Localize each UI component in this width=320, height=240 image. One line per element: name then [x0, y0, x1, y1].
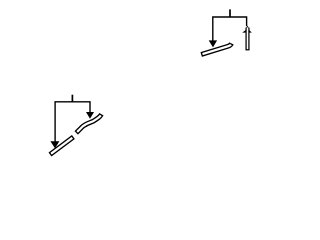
- wire: S1 bracket (left drop, horizontal, right drop): [213, 17, 247, 41]
- arrowhead: S1 solid down arrow onto blade: [209, 40, 217, 47]
- symbol S2 (bottom-left double-arrow contact): [55, 95, 90, 142]
- contact blade: S2 upper wavy bar with upturned end: [76, 114, 101, 133]
- contact blade: S1 slanted bar with curled tip: [201, 43, 231, 54]
- contact blade: S2 lower straight bar: [50, 137, 73, 155]
- wire: S1 top terminal stub: [229, 9, 231, 17]
- wire: S2 bracket (left drop, horizontal, right drop): [55, 102, 90, 142]
- wire: S2 top terminal stub: [71, 95, 73, 102]
- hollow return arrow: S1 up arrow with open shaft: [245, 26, 249, 29]
- arrowhead: S2 solid down arrow (left, long): [50, 141, 59, 148]
- arrowhead: S2 solid down arrow (right, short): [86, 112, 94, 119]
- symbol S1 (top-right actuator contact): [213, 9, 247, 40]
